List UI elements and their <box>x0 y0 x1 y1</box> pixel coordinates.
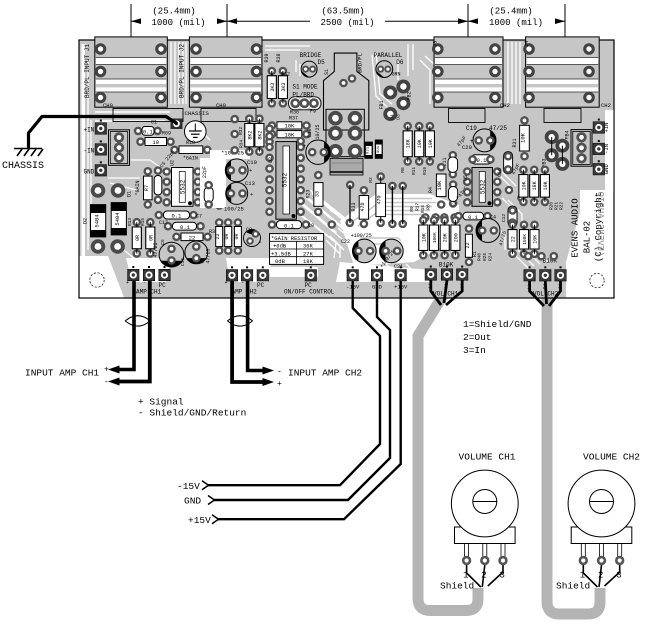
svg-text:R26: R26 <box>482 253 488 261</box>
svg-text:U5: U5 <box>463 175 469 181</box>
capacitor C22 100/25 <box>353 239 377 263</box>
diode D3 <box>375 140 383 159</box>
svg-text:22: 22 <box>511 236 517 242</box>
svg-text:47/25: 47/25 <box>153 242 159 257</box>
header P2 right <box>571 130 592 167</box>
wire -15V <box>208 281 380 485</box>
svg-text:2=Out: 2=Out <box>463 332 492 343</box>
svg-text:VOLUME CH1: VOLUME CH1 <box>459 452 516 463</box>
svg-text:C18: C18 <box>307 128 313 137</box>
svg-text:PARALLEL: PARALLEL <box>374 52 403 59</box>
svg-text:22: 22 <box>189 235 196 242</box>
svg-text:P9: P9 <box>310 109 316 115</box>
resistor R7 GAIN <box>135 167 152 209</box>
wires vol ch1 to cable <box>431 280 462 305</box>
svg-text:BRD/PL INPUT J1: BRD/PL INPUT J1 <box>84 44 91 98</box>
header P9 pads <box>289 97 322 110</box>
ferrite FB4 <box>555 139 569 153</box>
resistor R37 10K <box>268 130 311 139</box>
via pads center CH2 column B <box>348 111 363 126</box>
svg-text:D3: D3 <box>396 114 402 120</box>
op-amp U2 5532 <box>162 167 202 206</box>
potentiometer CH2 pins <box>579 556 588 565</box>
capacitor C13 100/25 <box>226 182 248 204</box>
svg-text:10K: 10K <box>284 123 295 130</box>
svg-text:+IN: +IN <box>603 123 610 133</box>
ferrite FB2 <box>396 80 410 94</box>
svg-text:R1: R1 <box>472 251 478 257</box>
footprint outline under J3 <box>449 109 486 123</box>
pad VOL CH1 1 <box>425 266 437 281</box>
capacitor C20 0.1 <box>462 144 495 164</box>
dimension tick lines <box>131 4 565 38</box>
resistor R25 100K <box>520 221 529 259</box>
connector J2 block <box>189 37 262 107</box>
svg-text:470: 470 <box>377 195 383 204</box>
pad AMP CH2 - <box>241 266 253 281</box>
routing clearance around bottom pads <box>126 228 430 282</box>
svg-text:C7: C7 <box>196 214 202 220</box>
resistor R6 18K <box>403 122 412 166</box>
twist symbol ch2 <box>228 316 253 326</box>
svg-text:BAL-02: BAL-02 <box>583 221 593 253</box>
resistor R69 10 <box>136 131 175 147</box>
svg-text:-: - <box>277 368 282 377</box>
svg-text:R11: R11 <box>411 167 417 175</box>
pad AMP CH1 + <box>128 266 140 281</box>
jumper wire W2 <box>398 182 407 229</box>
svg-text:D5: D5 <box>318 59 326 66</box>
resistor R21 18K <box>530 166 539 207</box>
svg-text:R3: R3 <box>209 229 215 235</box>
capacitor C16b 47pF <box>497 152 522 177</box>
svg-text:GND: GND <box>603 164 610 175</box>
shielded cable to volume ch2 <box>547 294 600 614</box>
pads right of P9 <box>339 79 348 88</box>
svg-text:0.1: 0.1 <box>172 213 183 220</box>
capacitor C17 0.1 <box>159 220 205 231</box>
svg-text:C22: C22 <box>341 239 350 245</box>
wire GND <box>214 281 390 500</box>
svg-text:3=In: 3=In <box>463 345 486 356</box>
via pad left B <box>111 183 126 198</box>
svg-text:0.1: 0.1 <box>468 214 479 221</box>
svg-text:R17: R17 <box>415 203 421 211</box>
earth symbol on board <box>185 121 207 143</box>
connector line FB <box>551 137 553 155</box>
svg-text:100K: 100K <box>432 232 438 243</box>
resistor R35 22 <box>508 221 517 259</box>
wire amp ch2 plus <box>232 281 266 382</box>
svg-text:36K: 36K <box>303 243 314 250</box>
svg-text:U2: U2 <box>170 160 176 166</box>
op-amp U5 5532 <box>463 167 502 206</box>
header P1 left <box>109 130 130 166</box>
wires pot CH2 <box>583 565 619 587</box>
svg-text:C12: C12 <box>501 214 507 222</box>
svg-text:+15V: +15V <box>188 515 211 526</box>
svg-text:10K: 10K <box>521 181 527 190</box>
svg-text:D6: D6 <box>396 59 404 66</box>
routing traces right cluster diagonals <box>497 170 548 268</box>
copper-free strip right edge <box>605 110 613 192</box>
routing traces diagonal bundle center <box>296 190 396 258</box>
svg-text:S1: S1 <box>324 69 330 75</box>
routing traces left edge <box>88 60 160 250</box>
svg-text:1000 (mil): 1000 (mil) <box>489 18 543 28</box>
routing white patch near U2 <box>200 158 226 208</box>
pad VOL CH1 2 <box>441 266 453 281</box>
svg-text:-: - <box>143 280 146 286</box>
resistor R16 10K <box>425 122 434 166</box>
jumper wire W1 <box>388 182 397 229</box>
resistor R5 22 vertical <box>215 218 224 255</box>
svg-text:R24: R24 <box>488 253 494 261</box>
svg-text:D1: D1 <box>127 191 133 197</box>
svg-text:+3.5dB: +3.5dB <box>271 250 292 257</box>
resistor bank 200 <box>451 216 460 260</box>
svg-text:C10: C10 <box>247 159 257 166</box>
connector J4 block <box>523 37 599 107</box>
routing traces between J3 J4 <box>508 42 520 104</box>
routing white field center bottom <box>340 194 459 266</box>
svg-text:-IN: -IN <box>83 147 94 154</box>
pad row under jumpers <box>421 213 430 222</box>
potentiometer CH1 legs <box>465 544 505 558</box>
capacitor C12 pads <box>508 206 517 227</box>
svg-text:-15V: -15V <box>177 481 200 492</box>
svg-text:5404: 5404 <box>114 212 121 226</box>
svg-text:R6: R6 <box>400 167 406 173</box>
chassis wire <box>29 117 178 149</box>
resistor R3 22 <box>172 229 215 242</box>
svg-text:0dB: 0dB <box>275 258 286 265</box>
svg-text:200: 200 <box>453 233 459 242</box>
svg-text:+: + <box>104 366 109 375</box>
svg-text:GRN: GRN <box>392 72 401 78</box>
routing traces around power pads <box>340 262 412 270</box>
svg-text:(63.5mm): (63.5mm) <box>321 6 364 16</box>
svg-text:R4: R4 <box>428 187 434 193</box>
resistor R10 0R <box>224 218 233 255</box>
pad VOL CH1 3 <box>456 266 468 281</box>
pad VOL CH2 1 <box>524 266 536 281</box>
routing white wedge left of R33 <box>300 193 350 233</box>
pad -IN left <box>95 140 107 155</box>
svg-text:47/25: 47/25 <box>489 125 507 132</box>
arrow amp ch2 minus <box>263 367 275 375</box>
svg-text:R31: R31 <box>512 138 518 147</box>
capacitor C11 47pF <box>442 135 468 178</box>
svg-text:10K: 10K <box>520 132 527 143</box>
arrow amp ch1 plus <box>108 366 120 374</box>
pad GND right <box>593 160 605 175</box>
resistor bank 20K <box>440 216 449 260</box>
led D6 PARALLEL <box>376 61 393 78</box>
svg-text:R22: R22 <box>559 202 565 210</box>
pad AMP CH1 PC <box>159 266 171 281</box>
pad -15V <box>347 266 359 281</box>
svg-text:10K: 10K <box>428 139 434 148</box>
capacitor C6 47/25 <box>159 242 184 267</box>
svg-text:3K3: 3K3 <box>281 83 287 92</box>
pads above VOL CH2 <box>524 252 533 261</box>
wire +15V <box>218 281 401 519</box>
capacitor C5 22pF <box>154 149 177 204</box>
svg-text:47/25: 47/25 <box>206 248 212 263</box>
svg-text:R32: R32 <box>238 127 244 135</box>
wire amp ch1 minus <box>116 281 150 382</box>
resistor R29 10K <box>530 221 539 259</box>
resistor R4 10K <box>428 163 446 209</box>
svg-text:+: + <box>201 260 204 266</box>
diode D1 5404 <box>111 191 132 235</box>
svg-text:-: - <box>104 378 109 387</box>
svg-text:5404: 5404 <box>94 214 101 228</box>
svg-text:R18: R18 <box>186 140 195 146</box>
svg-text:+: + <box>126 280 129 286</box>
svg-text:+: + <box>249 167 252 174</box>
svg-text:22: 22 <box>465 242 471 248</box>
resistor R32 8K2 <box>245 114 254 156</box>
led D5 BRIDGE <box>301 61 317 77</box>
routing traces above chassis wire <box>95 112 170 121</box>
svg-text:*GAIN RESISTOR: *GAIN RESISTOR <box>271 235 318 242</box>
diode D4 <box>365 142 373 159</box>
svg-text:R37: R37 <box>289 116 298 122</box>
svg-text:33: 33 <box>314 191 320 197</box>
svg-text:8K2: 8K2 <box>257 131 263 140</box>
svg-text:PC: PC <box>257 282 265 289</box>
ferrite FB1 <box>383 86 397 100</box>
pads column left of 8K2 <box>230 115 239 124</box>
routing gray traces in white field <box>352 199 436 255</box>
svg-text:*GAIN: *GAIN <box>183 156 198 162</box>
svg-text:AMP CH2: AMP CH2 <box>232 289 258 296</box>
svg-text:U3: U3 <box>268 157 274 163</box>
via pad left A <box>91 183 106 198</box>
capacitor C14 0.1 <box>454 212 496 221</box>
dimension label (25.4mm) 1000 (mil) left <box>131 6 227 28</box>
ic U3 <box>265 132 305 219</box>
pad AMP CH1 - <box>143 266 155 281</box>
svg-text:ON/OFF CONTROL: ON/OFF CONTROL <box>284 289 335 296</box>
svg-text:J3: J3 <box>432 41 439 48</box>
via pad left D <box>110 239 125 254</box>
resistor R20 10K <box>519 166 528 207</box>
svg-text:10K: 10K <box>533 235 539 244</box>
capacitor C1 0.1 <box>134 120 162 136</box>
svg-text:R69: R69 <box>162 131 171 137</box>
dimension label (25.4mm) 1000 (mil) right <box>468 6 565 28</box>
svg-text:J4: J4 <box>523 40 530 47</box>
gain resistor table <box>270 234 324 266</box>
svg-text:S1 MODE: S1 MODE <box>292 84 318 91</box>
pad +IN right <box>593 119 605 134</box>
svg-text:C16: C16 <box>180 258 186 266</box>
svg-text:3K3: 3K3 <box>270 83 276 92</box>
svg-text:BRD/PL: BRD/PL <box>357 53 364 73</box>
svg-text:R38: R38 <box>276 53 282 62</box>
pad VOL CH2 3 <box>555 266 567 281</box>
svg-text:Shield: Shield <box>556 581 590 592</box>
svg-text:10K: 10K <box>284 132 295 139</box>
copper-free region bottom-right <box>566 190 613 297</box>
svg-text:CH2: CH2 <box>601 102 611 109</box>
potentiometer CH2 body <box>568 470 635 543</box>
svg-text:22: 22 <box>215 233 221 239</box>
via pad left C <box>91 239 106 254</box>
resistor R12 0R <box>234 218 243 255</box>
svg-text:BRD/PL INPUT J2: BRD/PL INPUT J2 <box>179 44 186 98</box>
svg-text:0.1: 0.1 <box>284 222 295 229</box>
svg-text:GND: GND <box>83 168 94 175</box>
center connector outline <box>326 109 364 156</box>
svg-text:5532: 5532 <box>179 179 186 194</box>
svg-text:CHASSIS: CHASSIS <box>2 161 44 172</box>
svg-text:·CHASSIS: ·CHASSIS <box>181 110 209 117</box>
pad GND power <box>371 266 383 281</box>
svg-text:BRIDGE: BRIDGE <box>300 52 322 59</box>
resistor R22 10K <box>540 166 549 207</box>
chevron GND <box>208 496 215 505</box>
svg-text:27K: 27K <box>303 250 314 257</box>
twist symbol ch1 <box>125 316 150 326</box>
resistor R13 0R <box>132 218 141 258</box>
svg-text:100K: 100K <box>522 234 528 245</box>
resistor R11 10K <box>415 122 424 166</box>
capacitor C10 100/25 <box>225 159 248 182</box>
svg-text:C19: C19 <box>466 125 477 132</box>
svg-text:EVENS AUDIO: EVENS AUDIO <box>571 198 581 257</box>
svg-text:Shield: Shield <box>440 581 474 592</box>
ferrite FB3 <box>545 130 559 144</box>
svg-text:+: + <box>303 143 306 149</box>
capacitor C7 0.1 <box>155 211 203 220</box>
resistor R2 470 <box>368 172 386 227</box>
capacitor C9 0.1 <box>268 220 314 229</box>
svg-text:5532: 5532 <box>282 172 289 187</box>
svg-text:20K: 20K <box>443 233 449 242</box>
svg-text:2500 (mil): 2500 (mil) <box>320 18 374 28</box>
capacitor C18 10/25 <box>306 140 330 164</box>
arrow amp ch1 minus <box>108 378 120 386</box>
resistor R23 <box>306 171 324 216</box>
capacitor C4b 22pF <box>202 166 213 209</box>
svg-text:10K: 10K <box>543 181 549 190</box>
svg-text:+6dB: +6dB <box>273 243 287 250</box>
svg-text:C17: C17 <box>159 220 168 226</box>
capacitor C19 47/25 <box>473 129 496 152</box>
routing traces right of S1 <box>372 44 436 108</box>
svg-text:10K: 10K <box>421 233 427 242</box>
chassis pad on board <box>171 119 183 130</box>
svg-text:100/25: 100/25 <box>224 206 244 213</box>
svg-text:10K: 10K <box>436 180 443 191</box>
svg-text:10/25: 10/25 <box>315 124 321 139</box>
svg-text:FB1: FB1 <box>379 100 385 109</box>
resistor R36 10K <box>268 121 311 130</box>
component block below center connector <box>330 159 363 176</box>
svg-text:C9: C9 <box>308 223 314 229</box>
svg-text:CH0: CH0 <box>216 102 226 109</box>
pad +IN left <box>95 120 107 135</box>
pad AMP CH2 PC <box>257 266 269 281</box>
svg-text:R23: R23 <box>306 189 312 198</box>
capacitor C3 47/25 <box>476 219 500 243</box>
routing traces mid left <box>124 130 236 260</box>
switch S1 outline <box>324 53 369 130</box>
mounting hole bottom-left <box>90 273 104 287</box>
pad VOL CH2 2 <box>540 266 552 281</box>
svg-text:47D: 47D <box>360 202 366 211</box>
svg-text:10K: 10K <box>417 139 423 148</box>
dimension label (63.5mm) 2500 (mil) middle <box>227 6 468 28</box>
copper-free strip left edge <box>82 44 86 256</box>
svg-text:+: + <box>225 280 228 286</box>
svg-text:C1: C1 <box>151 120 157 126</box>
svg-text:10: 10 <box>152 139 159 146</box>
svg-text:D2: D2 <box>83 218 89 224</box>
wire amp ch1 plus <box>116 281 134 370</box>
svg-text:1000 (mil): 1000 (mil) <box>151 18 205 28</box>
capacitor C16 47/25 <box>185 241 208 264</box>
resistor R31 10K <box>512 116 529 160</box>
connector J3 block <box>432 37 503 107</box>
svg-text:VOLUME CH2: VOLUME CH2 <box>583 452 640 463</box>
resistor R36b pads cluster <box>265 124 274 133</box>
svg-text:0.1: 0.1 <box>477 157 488 164</box>
svg-text:R7: R7 <box>144 185 150 191</box>
chevron -15V <box>202 481 209 490</box>
svg-text:GND: GND <box>184 496 201 507</box>
footprint outline under J4 <box>544 109 581 123</box>
resistor R15 0R <box>146 218 155 258</box>
pad AMP CH2 + <box>226 266 238 281</box>
chassis ground symbol <box>14 149 43 157</box>
jumper wire W3 <box>346 181 355 228</box>
svg-text:R39: R39 <box>264 53 270 62</box>
svg-text:0R: 0R <box>135 235 141 241</box>
resistor R19 <box>215 164 224 210</box>
resistor bank 10K <box>419 216 428 260</box>
footprint outline under J1 <box>113 109 183 122</box>
chevron +15V <box>212 515 219 524</box>
svg-text:INPUT AMP CH2: INPUT AMP CH2 <box>288 368 362 379</box>
resistor R1 22 <box>465 224 478 266</box>
svg-text:0R: 0R <box>224 233 230 239</box>
svg-text:R33: R33 <box>351 202 357 211</box>
pad near C9 <box>328 220 337 229</box>
resistor R39 3K3 <box>267 67 276 108</box>
svg-text:9U1: 9U1 <box>377 145 381 153</box>
capacitor C21 100/25 <box>380 239 404 263</box>
resistor R18 <box>170 140 211 162</box>
svg-text:18K: 18K <box>406 139 412 148</box>
svg-text:- Shield/GND/Return: - Shield/GND/Return <box>138 408 246 419</box>
svg-text:5532: 5532 <box>479 179 486 194</box>
svg-text:8K2: 8K2 <box>247 131 253 140</box>
svg-text:+IN: +IN <box>83 127 94 134</box>
mounting hole bottom-right <box>590 273 604 287</box>
arrow amp ch2 plus <box>263 378 275 386</box>
svg-text:18K: 18K <box>303 258 314 265</box>
resistor R38 3K3 <box>278 67 287 108</box>
svg-text:R2: R2 <box>368 177 374 183</box>
svg-text:FB2: FB2 <box>407 91 413 100</box>
svg-text:INPUT AMP CH1: INPUT AMP CH1 <box>25 368 99 379</box>
resistor R34 8K2 <box>255 114 264 156</box>
